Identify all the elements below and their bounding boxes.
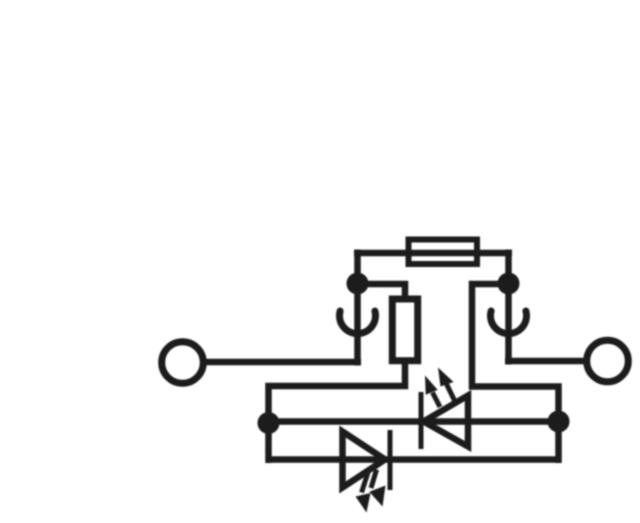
LED D2 arrow 1 tail bbox=[362, 473, 369, 493]
fuse clip contact left (hook) bbox=[340, 311, 376, 334]
wire: right fuse-clip stem to right terminal bbox=[505, 358, 587, 365]
LED D1 arrow 1 head bbox=[425, 376, 438, 395]
fuse F1 (cartridge body) bbox=[409, 240, 478, 265]
wire: node B branch left-down-right to node D bbox=[472, 284, 559, 463]
LED D2 arrow 1 head bbox=[356, 493, 371, 513]
LED D2 cathode bar bbox=[388, 430, 393, 490]
terminal X1 (left screw clamp circle) bbox=[162, 342, 204, 384]
LED D1 arrow 1 tail bbox=[433, 393, 441, 408]
LED D1 triangle (points left) bbox=[424, 396, 469, 447]
LED D1 arrow 2 tail bbox=[447, 384, 455, 401]
fuse clip contact right (hook) bbox=[491, 311, 527, 334]
LED D2 triangle (points right) bbox=[343, 432, 386, 488]
wire: resistor R1 bottom lead down-left to node C bbox=[269, 361, 406, 463]
terminal X2 (right screw clamp circle) bbox=[587, 340, 629, 382]
wire: left vertical stem (terminal up through clip to fuse wire) bbox=[354, 250, 361, 366]
node D junction dot (bottom right) bbox=[548, 411, 570, 433]
LED D2 arrow 2 tail bbox=[371, 470, 377, 489]
wire: right vertical stem (fuse wire down through clip to terminal) bbox=[505, 250, 512, 365]
resistor R1 bbox=[392, 299, 417, 361]
node A junction dot (left, below fuse) bbox=[347, 273, 369, 295]
wire: LED D2 row (node C to node D bottom) bbox=[269, 456, 559, 463]
LED D1 cathode bar bbox=[419, 392, 424, 449]
wire: node A to resistor R1 top lead bbox=[358, 284, 406, 299]
wire: horizontal through fuse F1 bbox=[354, 250, 512, 257]
wire: left terminal to left fuse-clip stem bbox=[204, 359, 361, 366]
wire: LED D1 row (node C to node D) bbox=[269, 418, 559, 425]
LED D2 arrow 2 head bbox=[369, 486, 385, 507]
LED D1 arrow 2 head bbox=[438, 368, 454, 387]
node B junction dot (right, below fuse) bbox=[498, 273, 520, 295]
node C junction dot (bottom left) bbox=[258, 412, 280, 434]
